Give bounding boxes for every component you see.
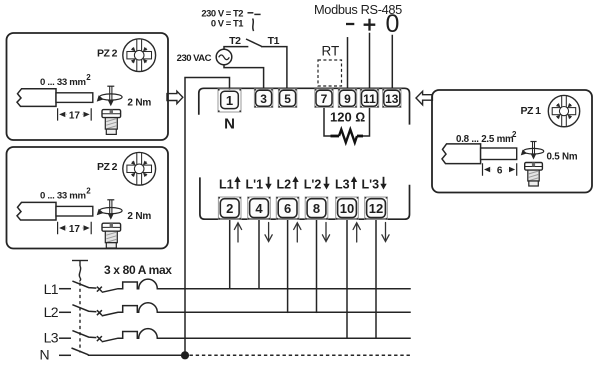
svg-text:6: 6 bbox=[497, 166, 503, 177]
svg-text:10: 10 bbox=[340, 201, 354, 216]
svg-text:N: N bbox=[224, 116, 235, 133]
svg-text:3 x 80 A max: 3 x 80 A max bbox=[104, 263, 172, 277]
svg-text:L'1: L'1 bbox=[246, 178, 264, 192]
svg-text:0 ... 33 mm: 0 ... 33 mm bbox=[40, 77, 86, 88]
svg-text:17: 17 bbox=[69, 224, 81, 235]
svg-text:PZ 2: PZ 2 bbox=[97, 48, 118, 60]
svg-text:2 Nm: 2 Nm bbox=[127, 98, 151, 109]
svg-text:6: 6 bbox=[284, 201, 291, 216]
svg-text:7: 7 bbox=[321, 92, 328, 106]
svg-text:PZ 1: PZ 1 bbox=[521, 105, 542, 117]
svg-text:2: 2 bbox=[86, 187, 91, 196]
svg-text:13: 13 bbox=[385, 92, 399, 106]
svg-text:L2: L2 bbox=[277, 178, 292, 192]
svg-text:9: 9 bbox=[344, 92, 351, 106]
svg-text:17: 17 bbox=[69, 111, 81, 122]
svg-text:L3: L3 bbox=[335, 178, 350, 192]
svg-text:N: N bbox=[39, 347, 49, 363]
svg-text:L'3: L'3 bbox=[362, 178, 380, 192]
svg-text:2: 2 bbox=[86, 73, 91, 82]
svg-text:RT: RT bbox=[322, 44, 340, 59]
svg-text:L1: L1 bbox=[44, 281, 59, 297]
svg-text:230 VAC: 230 VAC bbox=[177, 53, 212, 64]
svg-text:0.5 Nm: 0.5 Nm bbox=[547, 152, 578, 163]
svg-text:4: 4 bbox=[255, 201, 263, 216]
svg-text:0: 0 bbox=[385, 10, 399, 38]
svg-text:L'2: L'2 bbox=[304, 178, 322, 192]
svg-text:0 ... 33 mm: 0 ... 33 mm bbox=[40, 191, 86, 202]
svg-text:11: 11 bbox=[363, 92, 376, 106]
svg-text:12: 12 bbox=[369, 201, 383, 216]
svg-text:8: 8 bbox=[313, 201, 320, 216]
svg-text:2: 2 bbox=[226, 201, 233, 216]
svg-text:0 V = T1: 0 V = T1 bbox=[211, 17, 243, 28]
svg-text:3: 3 bbox=[260, 92, 267, 106]
svg-text:2: 2 bbox=[512, 130, 517, 139]
svg-text:L3: L3 bbox=[44, 330, 59, 346]
svg-text:T2: T2 bbox=[229, 35, 241, 47]
svg-text:L1: L1 bbox=[219, 178, 234, 192]
svg-text:120 Ω: 120 Ω bbox=[330, 110, 365, 125]
svg-text:T1: T1 bbox=[268, 35, 280, 47]
svg-text:5: 5 bbox=[284, 92, 291, 106]
svg-text:PZ 2: PZ 2 bbox=[97, 161, 118, 173]
svg-text:1: 1 bbox=[226, 93, 233, 108]
svg-text:L2: L2 bbox=[44, 304, 59, 320]
svg-text:2 Nm: 2 Nm bbox=[127, 211, 151, 222]
